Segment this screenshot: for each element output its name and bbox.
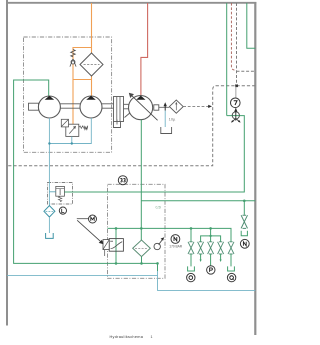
wire teal stub to relief valve [49,191,55,193]
shut-off valve SV1 [188,242,194,254]
filter F2 diamond [169,100,183,113]
filter F3 teal diamond [44,206,55,217]
wire green relief output long line [64,116,244,192]
shut-off valve SV4 [218,242,224,254]
wire stub to filter F2 [159,106,170,108]
shut-off valve SV6 [241,215,247,228]
wire drop to valve SV1 [190,228,192,241]
wire teal drain to tank T1 [164,111,166,128]
border frame left [6,0,8,326]
solenoid coil V2 [103,240,109,250]
node green dot right drain [243,200,246,203]
enclosure dash box lower valve assembly [108,184,166,278]
wire green right drain branch [243,201,245,215]
tank T6 [228,266,235,271]
shut-off valve SV3 [208,242,214,254]
tank T5 [188,266,195,271]
pump P2 direction triangle [86,96,96,100]
variable pump outlet stub [154,105,159,110]
drain diagonal pump case to sump [125,112,132,118]
gearbox sump bracket [114,122,121,128]
svg-text:1: 1 [151,335,153,339]
check valve bypass (spring + ball) [70,50,76,67]
node junction dot on dashed line [235,84,238,87]
label O circle [187,273,195,281]
wire gray dashed branch to border [237,70,256,72]
wire red supply to variable pump [141,3,148,96]
wire maroon dashed pilot from top [231,3,234,70]
label M circle [89,215,97,223]
wire teal drop and bottom return [158,271,256,290]
shaft P2-gearbox [102,104,114,108]
pilot dashed wire filter F2 to boundary [183,105,209,107]
wire green bottom drop [157,263,159,271]
node dots bottom line [115,262,118,265]
wire green through solenoid valve [115,228,117,263]
wire orange filter to pump 2 [91,76,93,96]
wire teal pump1 drain column [48,118,50,206]
pump P1 direction triangle [45,96,55,100]
wire green drain variable pump down [140,120,142,240]
relief valve RV1 [56,186,65,196]
wire orange branch to valve W [72,80,74,125]
relief valve spring [58,196,61,202]
wire green filter F4 to bottom line [141,257,143,264]
wire teal tank return left [7,274,158,276]
svg-text:10µ: 10µ [169,117,176,122]
variable pump direction triangle [136,96,145,100]
label Q circle [227,273,235,281]
filter F1 diamond [80,53,103,76]
shaft P1-P2 [60,104,80,108]
pump P1 circle [38,96,60,118]
wire SV5 to tank T6 [230,254,232,266]
valve bank bridge wire [201,236,221,242]
enclosure dash box pump group [24,37,112,152]
label 7 circle [231,98,241,108]
valve W pressure valve [66,124,79,136]
variable pump adjustment arrow [131,95,158,120]
gauge with test arrow [154,243,160,249]
label 33 circle [118,176,127,185]
pump P2 circle [80,96,102,118]
label L circle [59,207,66,214]
filter F4 green diamond [133,240,151,257]
svg-text:Hydraulikschema: Hydraulikschema [110,335,144,339]
tank T4 [241,231,247,236]
svg-text:0,5l: 0,5l [156,206,162,210]
label N2 circle [240,239,249,248]
wire gray dashed from top [236,3,238,85]
enclosure dash box relief valve [48,183,73,205]
wire teal filter to tank T2 [48,217,50,233]
shaft gearbox-variable pump [124,104,129,109]
wire green supply to pump1 from left column [14,80,158,263]
wire green manifold to valve bank [108,228,231,241]
arrow M to solenoid [77,218,89,220]
solenoid valve V2 [109,239,123,252]
wire teal drain manifold under pumps [49,118,91,144]
border frame top [6,2,256,4]
node dots manifold [115,227,118,230]
shut-off valve SV2 [198,242,204,254]
tank T2 [46,233,54,238]
wire SV1 to tank T5 [190,254,192,266]
shaft coupling stub left [29,103,39,110]
shut-off valve SV5 [228,242,234,254]
check arrow up at drain tee [164,105,166,111]
svg-text:170 BAR: 170 BAR [169,245,182,249]
gearbox [114,97,124,122]
variable displacement pump U1 [129,96,153,120]
wire green supply from top A [226,3,228,116]
wire SV2 drain stub [200,254,202,260]
wire SV4 drain stub [220,254,222,260]
valve W solenoid [61,119,68,127]
wire orange supply from top [91,3,93,53]
valve W spring + label [79,126,84,129]
wire SV3 to P [210,254,212,266]
node teal junctions [48,142,50,144]
wire link dot to symbol K [235,86,237,111]
label P circle [207,266,215,274]
label N circle [171,235,180,244]
coupling symbol K circle with arrows [232,112,239,119]
dashed boundary line right [7,86,255,166]
wire green return line lower [141,200,255,202]
tank T1 [161,127,172,134]
wire teal valve W drain [71,136,73,143]
border frame right [254,2,256,335]
wire orange filter bypass loop [73,48,92,80]
wire green from top B to border [247,3,256,48]
